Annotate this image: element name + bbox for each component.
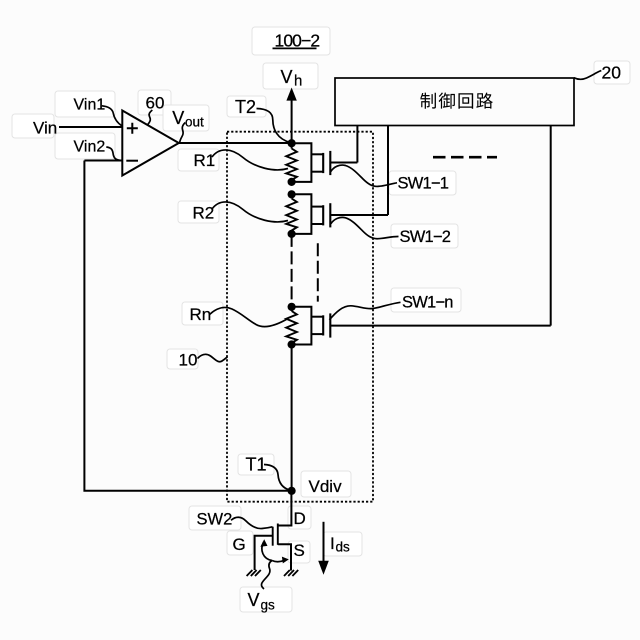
- wire op-amp output Vout to T2 node: [179, 142, 292, 144]
- svg-text:I: I: [330, 534, 335, 553]
- wire rail stub: [291, 143, 293, 148]
- transistor SW2 source wire: [278, 544, 291, 570]
- leader Rn: [210, 308, 289, 327]
- svg-text:SW1−2: SW1−2: [400, 228, 451, 246]
- node T1 / Vdiv: [288, 487, 296, 495]
- leader 20: [574, 71, 601, 80]
- leader Vin2: [106, 147, 120, 160]
- wire riser control box to SW1-n gate: [550, 126, 552, 326]
- svg-text:ds: ds: [336, 540, 351, 555]
- Ids arrow shaft: [323, 522, 325, 563]
- wire rail stub: [291, 307, 293, 311]
- wire op-amp - input: [84, 160, 122, 162]
- svg-text:100−2: 100−2: [275, 30, 320, 50]
- wire dashed switch-chain continuation: [317, 243, 319, 301]
- transistor SW1-2 drain stub: [311, 206, 323, 208]
- transistor SW1-2 source stub: [311, 223, 323, 225]
- transistor SW1-1 bracket: [292, 143, 312, 182]
- transistor SW2 gate bar: [272, 527, 274, 546]
- leader Vgs wavy: [261, 561, 272, 590]
- svg-text:60: 60: [146, 94, 165, 113]
- wire riser control box to SW1-1 gate: [356, 126, 358, 163]
- wire feedback loop from - input down to Vdiv node: [84, 161, 291, 491]
- Vh arrowhead: [286, 88, 296, 101]
- resistor Rn: [286, 311, 297, 343]
- op-amp U1 (60): [122, 111, 179, 176]
- leader SW1-2: [331, 217, 399, 238]
- svg-text:h: h: [294, 73, 302, 90]
- svg-text:gs: gs: [261, 598, 276, 613]
- svg-text:Vdiv: Vdiv: [309, 477, 343, 496]
- svg-text:Vin1: Vin1: [74, 97, 106, 114]
- svg-text:R1: R1: [194, 151, 216, 170]
- transistor SW1-1 source stub: [311, 171, 323, 173]
- transistor SW2 channel bar: [277, 524, 279, 545]
- node below R2: [288, 230, 296, 238]
- wire Vin to op-amp + input: [59, 126, 122, 128]
- node below R1: [288, 178, 296, 186]
- wire Vh arrow shaft: [291, 100, 293, 143]
- transistor SW1-1 gate bar: [329, 151, 331, 175]
- node T2: [288, 139, 296, 147]
- op-amp plus sign: [127, 123, 138, 134]
- svg-text:SW1−1: SW1−1: [398, 175, 449, 193]
- transistor SW1-n gate wire: [330, 325, 550, 327]
- transistor SW1-2 channel bar: [322, 205, 324, 225]
- leader R2: [212, 202, 288, 222]
- wire rail stub: [291, 180, 293, 182]
- leader Vin1: [102, 106, 122, 126]
- wire dashed rail continuation: [291, 234, 293, 307]
- leader Vout: [180, 123, 186, 143]
- Vgs gate arrowhead: [260, 539, 267, 547]
- transistor SW1-1 channel bar: [322, 153, 324, 173]
- Vgs arc to source: [272, 560, 285, 562]
- transistor SW1-2 bracket: [292, 194, 312, 234]
- node above Rn: [288, 303, 296, 311]
- leader 60: [147, 110, 152, 125]
- transistor SW1-1 gate wire: [330, 162, 357, 164]
- svg-text:Vin2: Vin2: [74, 139, 106, 156]
- wire rail stub: [291, 231, 293, 234]
- transistor SW1-2 gate bar: [329, 203, 331, 227]
- svg-text:V: V: [281, 67, 293, 87]
- transistor SW2 gate wire: [255, 536, 273, 570]
- ground under source of SW2: [284, 570, 298, 576]
- control circuit box 20: [335, 78, 574, 126]
- node below Rn: [288, 340, 296, 348]
- transistor SW1-n bracket: [292, 307, 312, 345]
- op-amp minus sign: [126, 160, 138, 162]
- ground under gate of SW2: [247, 570, 261, 576]
- svg-text:SW1−n: SW1−n: [402, 294, 453, 312]
- svg-text:SW2: SW2: [197, 511, 233, 529]
- wire drain of SW2 from Vdiv node: [278, 491, 292, 526]
- dashed continuation marks: [433, 156, 497, 159]
- node above R2: [288, 190, 296, 198]
- Vgs arc to gate: [262, 542, 272, 561]
- Ids arrowhead: [318, 561, 329, 575]
- resistor R1: [286, 149, 297, 181]
- control circuit kanji text 制御回路: [420, 92, 493, 108]
- svg-text:R2: R2: [193, 204, 215, 223]
- wire riser control box to SW1-2 gate: [387, 126, 389, 215]
- transistor SW1-2 gate wire: [330, 214, 388, 216]
- leader SW1-1: [331, 165, 397, 186]
- leader SW1-n: [329, 302, 400, 320]
- transistor SW1-n channel bar: [322, 315, 324, 335]
- leader SW2: [231, 517, 273, 528]
- wire rail stub: [291, 343, 293, 345]
- svg-text:Rn: Rn: [190, 305, 212, 324]
- leader R1: [212, 150, 288, 170]
- leader T2: [257, 109, 291, 143]
- dashed box 10: [227, 132, 373, 502]
- title underline 100-2: [273, 47, 317, 49]
- svg-text:T1: T1: [246, 455, 267, 475]
- wire rail Rn to T1: [291, 345, 293, 491]
- transistor SW1-n drain stub: [311, 316, 323, 318]
- svg-text:20: 20: [602, 62, 622, 82]
- leader 10: [198, 354, 228, 361]
- transistor SW1-n source stub: [311, 333, 323, 335]
- svg-text:Vin: Vin: [33, 119, 57, 138]
- svg-text:V: V: [172, 108, 184, 128]
- svg-text:out: out: [185, 115, 204, 130]
- resistor R2: [286, 199, 297, 231]
- svg-text:G: G: [233, 535, 246, 554]
- svg-text:T2: T2: [235, 97, 256, 117]
- leader T1: [264, 465, 291, 491]
- svg-text:10: 10: [179, 351, 198, 370]
- svg-text:V: V: [248, 590, 260, 610]
- svg-text:S: S: [294, 541, 305, 560]
- svg-text:D: D: [294, 509, 306, 528]
- wire rail stub: [291, 194, 293, 198]
- transistor SW1-n gate bar: [329, 313, 331, 337]
- Vgs source arrowhead: [282, 557, 289, 564]
- transistor SW1-1 drain stub: [311, 153, 323, 155]
